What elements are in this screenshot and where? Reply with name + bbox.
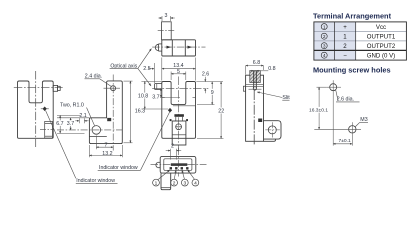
- terminal leader 1: [158, 170, 170, 180]
- top view block center line: [158, 29, 176, 31]
- mounting hole bottom circle: [314, 122, 361, 145]
- 5 dimension (slot width): [171, 72, 186, 81]
- 2.4 dia label: [85, 74, 112, 87]
- side view mounting hole: [92, 126, 101, 135]
- top view light direction arrows: [167, 46, 193, 49]
- top view body: [162, 40, 196, 56]
- terminal arrangement table: [314, 22, 407, 60]
- mounting screw holes title: [313, 65, 391, 74]
- terminal number 1: [153, 179, 160, 186]
- leader to indicator window label (front view): [141, 112, 170, 171]
- slit label: [257, 92, 290, 101]
- svg-text:22: 22: [218, 109, 224, 115]
- mounting hole top circle: [326, 80, 341, 145]
- front view (slot) body outline: [18, 81, 54, 138]
- 2.5 dimension: [148, 63, 154, 83]
- table row 4: pin 4 GND: [321, 52, 395, 59]
- 13.4 dimension: [162, 58, 196, 81]
- svg-text:7: 7: [105, 143, 108, 149]
- svg-text:10.8: 10.8: [138, 94, 148, 100]
- 16.3 +/-0.1 dimension: [317, 87, 327, 129]
- svg-text:Terminal Arrangement: Terminal Arrangement: [313, 11, 392, 20]
- 6.8 dimension: [246, 66, 264, 75]
- svg-text:3.7: 3.7: [152, 94, 159, 100]
- 2.1 dimension: [75, 113, 89, 123]
- optical axis label: [110, 49, 152, 86]
- main front view center line: [178, 77, 180, 150]
- top view left lens nub: [155, 44, 162, 51]
- svg-text:16.3±0.1: 16.3±0.1: [309, 108, 328, 114]
- 2 dimension (indicator window width): [166, 150, 182, 152]
- 7 dimension (side view): [96, 136, 113, 150]
- leader to indicator window label: [46, 111, 76, 179]
- svg-text:9: 9: [211, 90, 214, 96]
- right side view center line: [253, 90, 255, 146]
- front view mounting boss: [45, 121, 53, 138]
- main front view optical axis: [152, 87, 208, 89]
- svg-text:16.3: 16.3: [135, 109, 145, 115]
- front view boss center line: [40, 129, 55, 131]
- svg-text:OUTPUT1: OUTPUT1: [367, 34, 396, 41]
- bottom view outer body: [160, 156, 196, 173]
- svg-text:0.8: 0.8: [268, 66, 275, 72]
- M3 label: [355, 117, 368, 127]
- side view center line: [112, 75, 114, 151]
- front view optical axis line: [14, 87, 63, 89]
- right side view bottom flange: [264, 139, 276, 141]
- bottom view slot (dark): [171, 163, 188, 166]
- indicator window label (main front view): [98, 165, 141, 171]
- svg-text:2: 2: [173, 180, 176, 186]
- terminal leader 3: [182, 170, 184, 179]
- terminal block (front view bottom): [170, 114, 188, 145]
- svg-text:+: +: [343, 24, 347, 31]
- 7 +/-0.1 dimension: [333, 143, 352, 145]
- right side view indicator marker: [258, 119, 262, 123]
- front view right nub: [53, 85, 60, 91]
- bottom view center lines: [151, 148, 207, 177]
- side view lens circle 2.4 dia: [104, 86, 121, 91]
- Two R1.0 label: [60, 102, 95, 125]
- 10.8 dimension: [141, 81, 161, 109]
- bottom view terminal pins: [170, 167, 189, 169]
- 6.7 / 3.7 dimensions (side view): [57, 115, 89, 133]
- terminal number 3: [181, 179, 188, 186]
- right side view body: [246, 75, 264, 141]
- 2.6 dimension: [196, 77, 223, 94]
- table row 1: pin 1 Vcc: [321, 24, 386, 31]
- right side view mounting tab: [264, 121, 282, 139]
- side view hole center line: [57, 129, 122, 131]
- top view protruding block: [162, 22, 172, 40]
- 0.8 dimension (slit): [249, 70, 268, 72]
- terminal number 4: [192, 179, 199, 186]
- svg-text:4: 4: [194, 180, 197, 186]
- svg-text:Vcc: Vcc: [376, 24, 386, 31]
- svg-text:GND (0 V): GND (0 V): [367, 53, 395, 60]
- svg-text:Two, R1.0: Two, R1.0: [60, 102, 84, 108]
- indicator window label (front view): [76, 178, 118, 184]
- right side view face lines: [246, 84, 264, 89]
- main front view ledge line: [162, 97, 196, 105]
- top view optical center line: [152, 46, 205, 48]
- svg-text:7±0.1: 7±0.1: [339, 138, 351, 144]
- svg-text:3: 3: [165, 13, 168, 19]
- svg-text:5: 5: [177, 69, 180, 75]
- terminal arrangement title: [313, 11, 392, 20]
- 13.2 dimension (side view): [89, 145, 122, 157]
- svg-text:1: 1: [155, 180, 158, 186]
- svg-text:3.7: 3.7: [67, 121, 74, 127]
- svg-text:2.6: 2.6: [202, 71, 209, 77]
- 2.6 dia label: [336, 90, 360, 103]
- front view center line: [35, 71, 37, 147]
- right side view left nub: [243, 86, 245, 91]
- svg-text:OUTPUT2: OUTPUT2: [367, 43, 396, 50]
- svg-text:Mounting screw holes: Mounting screw holes: [313, 65, 391, 74]
- svg-text:13.2: 13.2: [102, 151, 112, 157]
- front view indicator marker: [41, 107, 49, 112]
- table row 2: pin 2 OUTPUT1: [321, 33, 396, 40]
- svg-text:3: 3: [183, 180, 186, 186]
- 3 dimension (top view block): [158, 16, 174, 21]
- right side view slit block (hatched): [250, 71, 260, 89]
- svg-text:6.7: 6.7: [56, 121, 63, 127]
- bottom view indicator window edges: [170, 149, 176, 160]
- table row 3: pin 3 OUTPUT2: [321, 43, 396, 50]
- terminal number 2: [171, 179, 178, 186]
- terminal leader 2: [174, 170, 176, 179]
- side view body outline: [89, 81, 122, 144]
- 22 dimension: [197, 82, 224, 139]
- right side view tab hole: [265, 122, 280, 137]
- terminal leader 4: [188, 170, 195, 179]
- svg-text:6.8: 6.8: [253, 60, 260, 66]
- main front view left lens nub: [155, 84, 162, 90]
- svg-text:2.5: 2.5: [143, 66, 150, 72]
- svg-text:−: −: [343, 53, 347, 60]
- right side view aperture circle: [253, 87, 256, 90]
- 9 dimension: [197, 82, 215, 105]
- main front view body outline: [162, 82, 196, 139]
- 3.7 dimension (front view): [159, 88, 180, 97]
- side view indicator marker: [107, 118, 111, 121]
- 16.3 dimension (side view): [124, 81, 133, 143]
- svg-text:2: 2: [171, 144, 174, 150]
- bottom view left nub: [156, 162, 160, 167]
- bottom view protruding leg: [161, 173, 171, 190]
- main front view indicator marker: [141, 108, 172, 113]
